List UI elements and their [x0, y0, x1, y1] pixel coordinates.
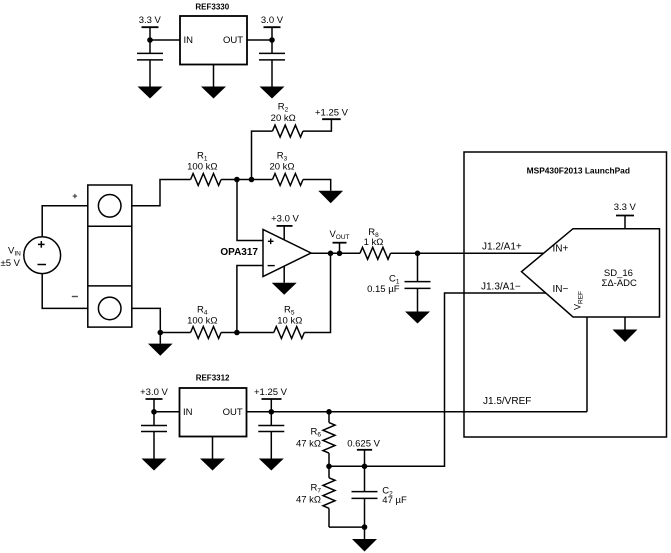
ground (REF3330 input cap): [138, 87, 163, 99]
op-amp U2 OPA317: [220, 230, 311, 277]
svg-text:10 kΩ: 10 kΩ: [277, 316, 302, 327]
svg-text:100 kΩ: 100 kΩ: [187, 316, 217, 327]
node REF3312 OUT: [269, 409, 275, 415]
node R6/R7 junction: [326, 464, 332, 470]
supply rail +1.25 V (top): [315, 108, 349, 120]
svg-text:47 kΩ: 47 kΩ: [296, 495, 321, 506]
svg-text:ΣΔ-ADC: ΣΔ-ADC: [601, 278, 637, 289]
svg-text:IN: IN: [184, 35, 194, 46]
wire connector top to R1: [132, 180, 191, 206]
capacitor C1 0.15 µF: [367, 253, 430, 311]
wire ADC GND: [624, 317, 626, 330]
resistor R6 47 kΩ: [296, 412, 335, 467]
wire R5 feedback to output node: [304, 253, 330, 332]
wire REF3330 OUT pin to node: [247, 39, 272, 41]
voltage reference U3 REF3312: [180, 374, 247, 437]
svg-text:OPA317: OPA317: [220, 247, 258, 258]
svg-text:J1.5/VREF: J1.5/VREF: [483, 396, 531, 407]
capacitor C_in REF3330: [137, 40, 163, 87]
wire node to op-amp - input: [237, 266, 263, 333]
rail 0.625 V: [347, 438, 380, 466]
wire R2 to +1.25V rail: [303, 119, 331, 131]
label + (connector top): [73, 194, 77, 198]
svg-text:REF3330: REF3330: [195, 3, 229, 12]
wire R1 to R3: [221, 179, 272, 181]
wire node to ground: [159, 333, 161, 344]
ground (REF3312 input cap): [142, 459, 167, 471]
node VOUT: [337, 251, 343, 257]
supply rail 3.0 V: [261, 15, 284, 27]
ground (ADC): [613, 330, 638, 343]
ground (REF3330 output cap): [260, 87, 285, 99]
wire VIN- to connector: [42, 274, 88, 309]
wire R4 to R5: [221, 332, 274, 334]
capacitor C2 47 µF: [352, 466, 407, 527]
capacitor C_out REF3330: [259, 40, 285, 87]
wire ADC VREF pin down: [586, 317, 588, 412]
node R2 branch: [249, 177, 255, 183]
node feedback: [328, 251, 334, 257]
node ground/R4: [158, 330, 164, 336]
wire R2 branch up: [252, 131, 273, 179]
svg-text:+1.25 V: +1.25 V: [254, 387, 288, 398]
wire +1.25V to J1.5/VREF: [271, 411, 587, 413]
connector J1 terminal block: [88, 185, 132, 327]
wire R7 bottom to C2 bottom: [329, 526, 365, 528]
voltage source VIN ±5V: [1, 237, 61, 274]
wire 3.0V rail to node: [271, 27, 273, 40]
ground (R3): [318, 191, 343, 203]
wire VIN+ to connector: [42, 206, 88, 237]
svg-text:20 kΩ: 20 kΩ: [269, 162, 294, 173]
supply rail +3.0 V (REF3312): [140, 387, 168, 412]
wire node to REF3330 IN pin: [150, 39, 180, 41]
wire +3.0V to op-amp V+: [283, 226, 285, 240]
wire node to R4: [160, 332, 190, 334]
svg-text:47 kΩ: 47 kΩ: [296, 438, 321, 449]
module MSP430F2013 LaunchPad: [464, 152, 667, 437]
capacitor C_in REF3312: [141, 412, 167, 459]
wire 3.3V rail to IN node: [149, 27, 151, 40]
svg-text:IN+: IN+: [553, 244, 569, 255]
svg-text:REF3312: REF3312: [196, 374, 230, 383]
resistor R1 100 kΩ: [187, 151, 221, 186]
node OUT of REF3330: [269, 37, 275, 43]
wire node to op-amp + input: [237, 180, 263, 241]
supply rail 3.3 V (ADC): [614, 202, 637, 229]
node C1: [415, 251, 421, 257]
svg-text:3.0 V: 3.0 V: [261, 15, 284, 26]
supply rail +1.25 V (REF3312): [254, 387, 288, 412]
wire op-amp output: [311, 252, 360, 254]
svg-text:±5 V: ±5 V: [1, 258, 21, 269]
svg-text:100 kΩ: 100 kΩ: [187, 162, 217, 173]
ground (C1): [405, 312, 430, 324]
resistor R5 10 kΩ: [274, 304, 305, 338]
ADC block SD_16 ΣΔ-ADC: [522, 229, 660, 317]
svg-text:OUT: OUT: [223, 407, 243, 418]
wire connector bottom to ground node: [132, 308, 161, 332]
ground (REF3312 output cap): [259, 459, 284, 471]
resistor R7 47 kΩ: [296, 466, 335, 527]
svg-text:J1.3/A1−: J1.3/A1−: [481, 281, 521, 292]
node C2 bottom: [362, 524, 368, 530]
svg-text:+1.25 V: +1.25 V: [315, 108, 349, 119]
wire R8 to ADC IN+ (J1.2/A1+): [391, 252, 544, 254]
node R1/R3/op-amp+: [234, 177, 240, 183]
node R6 top: [326, 409, 332, 415]
svg-text:IN−: IN−: [553, 284, 569, 295]
wire node to REF3312 IN pin: [154, 411, 180, 413]
ground (REF3330 GND): [201, 87, 226, 99]
wire ADC IN- to divider (J1.3/A1-): [329, 293, 546, 466]
wire R3 to ground: [303, 180, 331, 191]
ground (divider): [352, 539, 377, 552]
node R4/R5/op-amp-: [234, 330, 240, 336]
label - (connector bottom): [72, 296, 78, 298]
svg-text:IN: IN: [183, 407, 193, 418]
wire REF3312 GND pin: [212, 437, 214, 459]
resistor R8 1 kΩ: [360, 227, 391, 259]
svg-text:MSP430F2013 LaunchPad: MSP430F2013 LaunchPad: [527, 166, 630, 176]
node REF3312 IN: [151, 409, 157, 415]
supply rail 3.3 V: [139, 15, 162, 27]
ground (op-amp): [272, 283, 297, 295]
svg-text:0.15 µF: 0.15 µF: [367, 284, 400, 295]
svg-text:OUT: OUT: [223, 35, 243, 46]
supply rail +3.0 V (op-amp): [271, 213, 299, 226]
voltage regulator U1 REF3330: [180, 3, 247, 65]
svg-text:J1.2/A1+: J1.2/A1+: [482, 242, 522, 253]
resistor R3 20 kΩ: [269, 151, 303, 186]
rail VOUT: [329, 229, 349, 253]
capacitor C_out REF3312: [258, 412, 284, 459]
wire REF3330 GND pin: [213, 65, 215, 87]
ground (REF3312 GND): [200, 459, 225, 471]
svg-text:1 kΩ: 1 kΩ: [364, 237, 384, 248]
resistor R4 100 kΩ: [187, 304, 221, 338]
wire op-amp V- to ground: [283, 267, 285, 283]
svg-text:47 µF: 47 µF: [382, 495, 407, 506]
svg-text:3.3 V: 3.3 V: [139, 15, 162, 26]
svg-text:0.625 V: 0.625 V: [347, 438, 380, 449]
resistor R2 20 kΩ: [271, 101, 303, 137]
ground (input low side): [148, 344, 173, 356]
node divider mid / C2: [362, 464, 368, 470]
wire C2 node to ground: [364, 527, 366, 539]
node IN of REF3330: [147, 37, 153, 43]
svg-text:3.3 V: 3.3 V: [614, 202, 637, 213]
svg-text:+3.0 V: +3.0 V: [271, 213, 299, 224]
svg-text:20 kΩ: 20 kΩ: [271, 113, 296, 124]
wire REF3312 OUT to node: [247, 411, 272, 413]
svg-text:+3.0 V: +3.0 V: [140, 387, 168, 398]
